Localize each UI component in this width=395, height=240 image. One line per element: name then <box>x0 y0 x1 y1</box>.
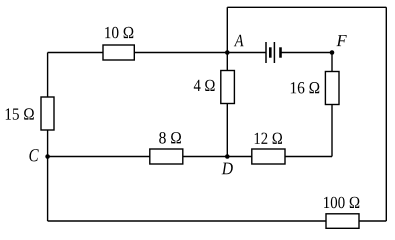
node F junction dot <box>330 50 335 55</box>
wire middle horizontal C to 16ohm corner <box>48 156 332 158</box>
resistor 15 ohm <box>41 97 54 130</box>
label node A <box>234 35 244 47</box>
label 12 ohm value <box>255 133 282 144</box>
battery cell short plate 1 <box>269 47 272 57</box>
resistor 4 ohm <box>221 71 235 104</box>
wire A to battery <box>227 52 266 54</box>
label 16 ohm value <box>291 82 320 94</box>
wire bottom edge <box>48 220 387 222</box>
wire top outer edge <box>227 6 386 8</box>
wire left edge <box>47 53 49 222</box>
node C junction dot <box>45 154 50 159</box>
label 15 ohm value <box>6 108 34 120</box>
label node C <box>29 149 38 161</box>
battery cell long plate 2 <box>273 42 275 63</box>
label 10 ohm value <box>105 27 133 39</box>
battery cell long plate 1 <box>265 42 267 63</box>
label node D <box>222 163 233 175</box>
label 8 ohm value <box>159 132 181 144</box>
wire top inner (left corner to node A) <box>48 52 228 54</box>
wire right outer edge <box>385 7 387 221</box>
wire battery to F <box>281 52 333 54</box>
resistor 100 ohm <box>326 214 359 229</box>
label 4 ohm value <box>194 80 215 91</box>
resistor 10 ohm <box>103 45 134 60</box>
battery cell short plate 2 <box>279 47 282 57</box>
resistor 8 ohm <box>150 149 183 164</box>
wire F vertical down <box>331 53 333 157</box>
label 100 ohm value <box>324 197 359 209</box>
resistor 12 ohm <box>252 149 285 164</box>
node D junction dot <box>225 154 230 159</box>
wire node A branch vertical (top edge through A to D) <box>226 7 228 156</box>
label node F <box>336 35 346 46</box>
resistor 16 ohm <box>325 72 339 105</box>
node A junction dot <box>225 50 230 55</box>
